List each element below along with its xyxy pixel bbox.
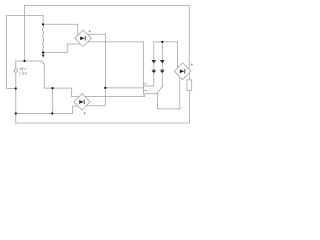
wiper arrow under L1 <box>42 53 45 57</box>
svg-text:1.8A: 1.8A <box>19 71 28 76</box>
switch S1 blade <box>157 86 163 94</box>
wire top rail <box>25 5 190 7</box>
wire resistor top to diamond <box>188 73 190 80</box>
diode D4 <box>160 70 164 73</box>
node secondary top <box>52 87 54 89</box>
wire resistor branch up to bridge U3 lower-right <box>189 90 191 123</box>
wire lower link to bridge U2 lower-left <box>16 106 78 113</box>
node diode rail <box>161 41 163 43</box>
wire left vertical from top rail <box>24 6 26 62</box>
wire bridge U1 lower-right to hub <box>87 42 144 95</box>
inductor L2 secondary winding <box>51 88 54 113</box>
plus mark U2 <box>84 112 86 114</box>
node left vertical join <box>23 60 25 62</box>
diode D1 <box>152 60 156 63</box>
wire AC source vertical <box>15 61 17 123</box>
wire AC source top <box>16 60 40 62</box>
node AC lower-left <box>15 87 17 89</box>
wire diode column 1 <box>153 42 155 86</box>
wire rail C to bridge U1 upper-left <box>43 24 79 34</box>
plus mark U3 <box>191 63 193 65</box>
bridge rectifier U2 <box>74 94 90 110</box>
node coil top <box>42 23 44 25</box>
node secondary bottom <box>51 112 53 114</box>
wire bridge U2 lower-right up to node <box>85 88 105 106</box>
wire second rail <box>7 15 44 17</box>
wire stub into coil top <box>42 16 44 25</box>
wire hop arc <box>40 61 44 65</box>
wire node to bridge U2 upper-left <box>44 88 80 96</box>
wire hub stub upper <box>144 83 147 85</box>
node lower link left <box>15 112 17 114</box>
bridge rectifier U3 <box>174 63 191 80</box>
wire hub to column1 bottom <box>144 85 154 87</box>
resistor R1 <box>187 80 192 90</box>
wire coil tap to bridge U1 lower-left <box>43 44 79 53</box>
wire bottom rail <box>16 122 190 124</box>
wire node to hub <box>105 87 143 89</box>
wire outer left vertical <box>7 16 16 89</box>
AC source G1 <box>14 69 17 72</box>
wire bridge U2 upper-right to switch <box>85 94 157 97</box>
bridge rectifier U1 <box>75 30 92 47</box>
node coil bottom tap <box>42 51 44 53</box>
node center column <box>104 87 106 89</box>
diode D2 <box>160 60 164 63</box>
inductor L1 primary winding <box>43 24 44 52</box>
diode D3 <box>152 70 156 73</box>
wire bridge U1 upper-right down <box>87 34 106 88</box>
wire to bridge U3 top <box>176 42 178 69</box>
wire down to node <box>43 65 45 88</box>
wire right rail down to bridge U3 <box>188 6 190 70</box>
wire hub stub lower <box>144 90 148 92</box>
wire diode column 2 <box>161 42 163 86</box>
junction node dots <box>15 23 164 114</box>
plus mark U1 <box>89 30 91 32</box>
wire diode rail <box>154 41 178 43</box>
wire switch down and U-path to bridge U3 lower-left <box>157 76 179 109</box>
